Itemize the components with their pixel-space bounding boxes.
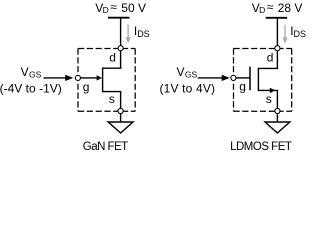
svg-text:V: V xyxy=(21,65,29,79)
svg-text:50 V: 50 V xyxy=(121,1,146,15)
svg-text:GaN FET: GaN FET xyxy=(83,141,128,153)
svg-text:s: s xyxy=(109,92,115,106)
svg-text:≈: ≈ xyxy=(267,0,274,14)
svg-text:≈: ≈ xyxy=(110,0,117,14)
svg-text:s: s xyxy=(266,92,272,106)
svg-text:LDMOS FET: LDMOS FET xyxy=(230,141,292,153)
svg-text:g: g xyxy=(83,80,90,94)
svg-text:V: V xyxy=(177,65,185,79)
svg-text:(-4V to -1V): (-4V to -1V) xyxy=(0,81,62,95)
svg-text:d: d xyxy=(267,50,274,64)
svg-text:d: d xyxy=(109,50,116,64)
svg-text:D: D xyxy=(259,5,265,15)
svg-text:DS: DS xyxy=(137,29,150,39)
svg-text:GS: GS xyxy=(29,70,42,80)
svg-text:g: g xyxy=(239,80,246,94)
svg-text:(1V to 4V): (1V to 4V) xyxy=(160,81,216,95)
svg-text:28 V: 28 V xyxy=(278,1,303,15)
svg-text:DS: DS xyxy=(294,29,307,39)
svg-text:GS: GS xyxy=(185,70,198,80)
svg-text:D: D xyxy=(103,5,109,15)
